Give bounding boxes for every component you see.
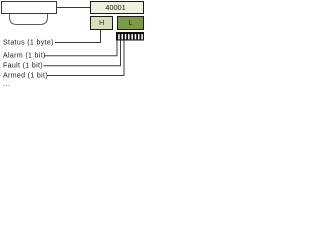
wire H byte to Status label	[55, 30, 101, 43]
wire sensor to register	[57, 7, 90, 9]
bit comb	[116, 32, 144, 41]
byte H box	[91, 17, 113, 30]
byte L box	[118, 17, 144, 30]
svg-text:...: ...	[3, 81, 10, 88]
svg-text:Alarm (1 bit): Alarm (1 bit)	[3, 52, 46, 59]
sensor dome	[10, 14, 48, 25]
svg-text:Status (1 byte): Status (1 byte)	[3, 40, 54, 47]
svg-text:H: H	[99, 18, 104, 27]
svg-text:Armed (1 bit): Armed (1 bit)	[3, 72, 48, 79]
svg-text:Fault (1 bit): Fault (1 bit)	[3, 63, 43, 70]
svg-text:L: L	[128, 18, 132, 27]
wire bit0 to Alarm label	[44, 41, 117, 56]
register 40001 box	[91, 2, 144, 14]
svg-text:40001: 40001	[105, 3, 126, 12]
wire bit2 to Armed label	[47, 41, 124, 76]
sensor body	[2, 2, 57, 14]
wire bit1 to Fault label	[44, 41, 121, 66]
